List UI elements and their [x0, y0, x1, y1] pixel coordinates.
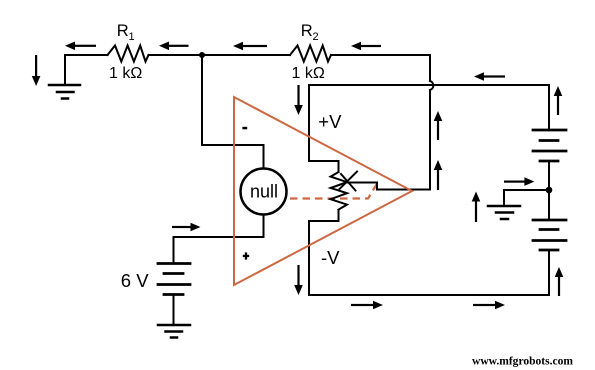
wire R1 to node: [149, 54, 291, 56]
svg-text:-V: -V: [321, 247, 340, 268]
node A junction dot: [199, 52, 205, 58]
svg-text:6 V: 6 V: [121, 270, 149, 291]
ground 6V: [158, 324, 190, 327]
arrow right at mid ground: [504, 177, 534, 186]
svg-text:R: R: [117, 22, 129, 40]
inverting input minus: [242, 127, 247, 130]
arrow up left of mid ground: [472, 192, 481, 223]
ground stub top-left: [64, 55, 66, 85]
wire B1 to junction: [548, 161, 550, 190]
op-amp U1 triangle: [234, 97, 412, 285]
arrow right bottom 2: [473, 301, 505, 310]
arrow right + input: [172, 223, 201, 232]
wire junction to ground right: [504, 190, 549, 206]
arrow right bottom 1: [351, 301, 383, 310]
svg-text:1 kΩ: 1 kΩ: [292, 65, 325, 82]
arrow down +V: [294, 85, 303, 115]
arrow left on +V rail: [474, 72, 505, 81]
battery 6V plates: [158, 262, 190, 265]
wire battery right top: [548, 85, 550, 130]
arrow up right of bottom battery: [555, 267, 564, 296]
arrow left node-R2: [233, 42, 267, 51]
battery B1 plates: [533, 129, 566, 132]
arrow up x430 lower: [434, 160, 443, 190]
wire below null to battery: [174, 215, 264, 264]
wire junction to B2: [548, 190, 550, 220]
wire top horizontal: [65, 54, 108, 56]
node B junction dot: [546, 187, 553, 194]
battery B2 plates: [533, 219, 566, 222]
svg-text:R: R: [301, 22, 313, 40]
arrow up right of top corner: [554, 86, 563, 115]
wire vertical down to wiper line: [348, 90, 431, 190]
svg-text:www.mfgrobots.com: www.mfgrobots.com: [472, 354, 573, 368]
svg-text:+V: +V: [318, 111, 342, 132]
wire bottom horizontal: [309, 294, 549, 296]
svg-text:null: null: [250, 182, 278, 202]
wire B2 bottom: [548, 250, 550, 295]
svg-text:2: 2: [313, 31, 319, 43]
arrow up x430 upper: [434, 111, 443, 140]
arrow left above R1: [65, 42, 96, 51]
noninverting input plus: [243, 255, 249, 257]
wiper X stroke B: [341, 174, 356, 191]
arrow down top-left: [32, 55, 41, 86]
resistor R1: [108, 46, 149, 62]
null trim dashed linkage: [290, 185, 377, 199]
wiper X stroke A: [340, 172, 358, 190]
wire hop over: [430, 81, 433, 90]
wire +V horizontal: [309, 84, 549, 86]
current arrows: [32, 42, 564, 310]
ground top-left: [49, 84, 80, 87]
arrow left R1-node: [159, 42, 189, 51]
wire R2 right to corner: [331, 55, 430, 81]
node wire down from junction: [202, 55, 264, 169]
ground right: [488, 205, 520, 208]
potentiometer zigzag: [331, 172, 347, 210]
wire 6V to ground: [173, 295, 175, 326]
null meter circle: [241, 169, 287, 215]
resistor R2: [290, 46, 331, 62]
wire pot bottom to -V: [309, 210, 339, 295]
svg-text:1 kΩ: 1 kΩ: [109, 65, 142, 82]
wire +V down to pot: [309, 85, 339, 172]
arrow down -V: [294, 265, 303, 295]
svg-text:1: 1: [129, 31, 135, 43]
arrow left R2-corner: [351, 42, 381, 51]
